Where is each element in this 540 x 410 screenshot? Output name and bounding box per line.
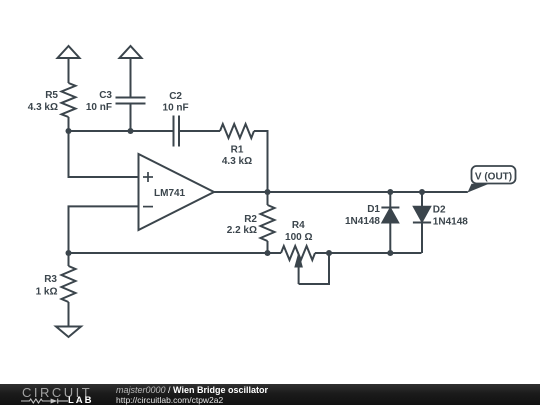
wire output node to R2 [267,192,269,205]
op-amp minus pin mark [143,206,153,208]
op-amp U1 [139,154,215,230]
svg-text:R5: R5 [45,90,58,101]
svg-text:4.3 kΩ: 4.3 kΩ [222,156,252,167]
node A junction dot [66,128,72,134]
wire bottom rail right [315,252,422,254]
V(OUT) flag box [472,166,516,184]
capacitor C2 [173,116,175,147]
svg-text:D1: D1 [367,204,380,215]
resistor R2 [261,205,275,241]
svg-text:1N4148: 1N4148 [433,217,468,228]
svg-text:4.3 kΩ: 4.3 kΩ [28,102,58,113]
wire op-amp output [214,191,468,193]
node output junction dot [265,189,271,195]
svg-text:LM741: LM741 [154,188,186,199]
node R4 loop junction dot [326,250,332,256]
wire minus input [69,206,139,253]
diode D1 [389,192,391,208]
wire C2 to R1 [179,130,220,132]
wire R2 to bottom rail [267,241,269,253]
wire VCC1 to R5 [68,58,70,83]
resistor R4 [281,246,315,260]
node D1 top junction dot [387,189,393,195]
wire VCC2 to C3 [130,58,132,98]
svg-text:C3: C3 [99,90,112,101]
power symbol VCC1 (above R5) [58,46,80,58]
wire node A to C2 [69,130,174,132]
wire C3 to node B [130,104,132,132]
svg-text:R3: R3 [44,274,57,285]
node C junction dot [66,250,72,256]
svg-text:10 nF: 10 nF [86,102,112,113]
node R2 bottom junction dot [265,250,271,256]
svg-text:1 kΩ: 1 kΩ [36,287,58,298]
power symbol VCC2 (above C3) [120,46,142,58]
svg-text:100 Ω: 100 Ω [285,232,312,243]
V(OUT) flag tail [468,184,490,193]
node D2 top junction dot [419,189,425,195]
svg-text:1N4148: 1N4148 [345,216,380,227]
CircuitLab logo wordmark CIRCUIT [22,385,92,400]
svg-text:10 nF: 10 nF [163,103,189,114]
node B junction dot (C3) [128,128,134,134]
R4 wiper arrow [296,256,302,267]
wire R3 to ground [68,302,70,327]
svg-text:D2: D2 [433,205,446,216]
footer bar [0,384,540,405]
svg-text:C2: C2 [169,91,182,102]
op-amp plus pin mark [143,176,153,178]
resistor R1 [220,124,254,138]
wire node C to R3 [68,253,70,266]
svg-text:2.2 kΩ: 2.2 kΩ [227,225,257,236]
wire bottom rail left [69,252,282,254]
svg-text:R4: R4 [292,220,305,231]
footer credit line [116,386,268,406]
resistor R3 [62,266,76,302]
svg-text:V (OUT): V (OUT) [475,172,512,183]
resistor R5 [62,83,76,117]
svg-text:R2: R2 [244,214,257,225]
capacitor C3 [116,97,146,99]
wire R1 to corner [254,131,268,192]
CircuitLab logo wordmark LAB [68,395,94,406]
svg-text:R1: R1 [231,145,244,156]
R4 wiper loop wire [299,253,329,284]
CircuitLab logo resistor-diode glyph [21,397,69,405]
diode D2 [421,192,423,207]
node D1 bottom junction dot [387,250,393,256]
ground [56,327,81,338]
wire R5 to node A [68,117,70,131]
wire node A down to plus input [69,131,139,177]
